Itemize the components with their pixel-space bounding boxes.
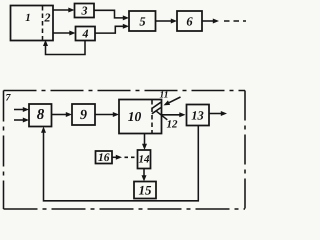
svg-text:5: 5 — [139, 14, 145, 28]
block 8 — [29, 104, 52, 127]
block 13 — [187, 105, 210, 126]
svg-text:14: 14 — [139, 154, 151, 166]
dash-dot enclosure 7 left border — [3, 91, 5, 210]
input arrow 1 to block 8 — [14, 107, 29, 112]
svg-text:1: 1 — [25, 12, 31, 24]
wire 2 to 3 — [53, 8, 75, 13]
dashed wire 16 to 14 — [125, 156, 138, 158]
block 14 — [138, 150, 151, 169]
wire 3 to 5 — [94, 10, 129, 20]
wire 10 to 14 — [142, 134, 147, 151]
input arrow 2 to block 8 — [14, 118, 29, 123]
svg-text:6: 6 — [186, 14, 193, 28]
svg-text:8: 8 — [37, 107, 45, 123]
block 6 — [177, 11, 202, 31]
block 3 — [75, 4, 95, 18]
leader line from label 12 — [157, 111, 168, 120]
dash-dot enclosure 7 top border — [4, 90, 246, 92]
block 10 — [119, 100, 162, 134]
svg-text:4: 4 — [82, 27, 89, 41]
svg-text:11: 11 — [160, 91, 169, 101]
wire 6 output arrow — [202, 19, 219, 24]
hatch mark 1 in block 10 strip — [152, 102, 161, 108]
wire 4 to 5 — [95, 24, 129, 33]
dashed divider in block 10 — [151, 100, 153, 133]
svg-text:9: 9 — [80, 108, 87, 123]
block 16 — [96, 151, 113, 164]
dashed continuation of output — [224, 20, 246, 22]
svg-text:2: 2 — [44, 10, 51, 24]
block 9 — [72, 104, 95, 125]
svg-text:3: 3 — [81, 4, 88, 18]
svg-text:12: 12 — [167, 119, 179, 131]
dash-dot enclosure 7 right border — [244, 91, 246, 210]
svg-text:13: 13 — [191, 108, 204, 122]
feedback wire 13 to 8 — [41, 126, 198, 201]
svg-text:10: 10 — [128, 109, 142, 124]
svg-text:16: 16 — [98, 152, 110, 164]
wire 8 to 9 — [52, 112, 73, 117]
wire 5 to 6 — [156, 19, 178, 24]
block 15 — [134, 182, 156, 199]
block 5 — [129, 11, 156, 31]
leader arrow from label 11 — [164, 97, 181, 105]
dash-dot enclosure 7 bottom border — [4, 208, 246, 210]
dashed divider between 1 and 2 — [42, 6, 44, 40]
feedback wire 4 to 2 — [43, 40, 85, 55]
wire 10 to 13 — [162, 112, 186, 117]
block 1 (unit with section 2) — [11, 6, 54, 41]
wire 2 to 4 — [53, 31, 76, 36]
svg-text:15: 15 — [139, 182, 153, 197]
svg-text:7: 7 — [6, 92, 12, 103]
block 4 — [76, 27, 96, 41]
arrow from 16 — [112, 155, 122, 160]
hatch mark 2 in block 10 strip — [152, 108, 161, 114]
wire 13 output arrow — [209, 111, 227, 116]
wire 14 to 15 — [142, 169, 147, 182]
wire 9 to 10 — [95, 112, 119, 117]
